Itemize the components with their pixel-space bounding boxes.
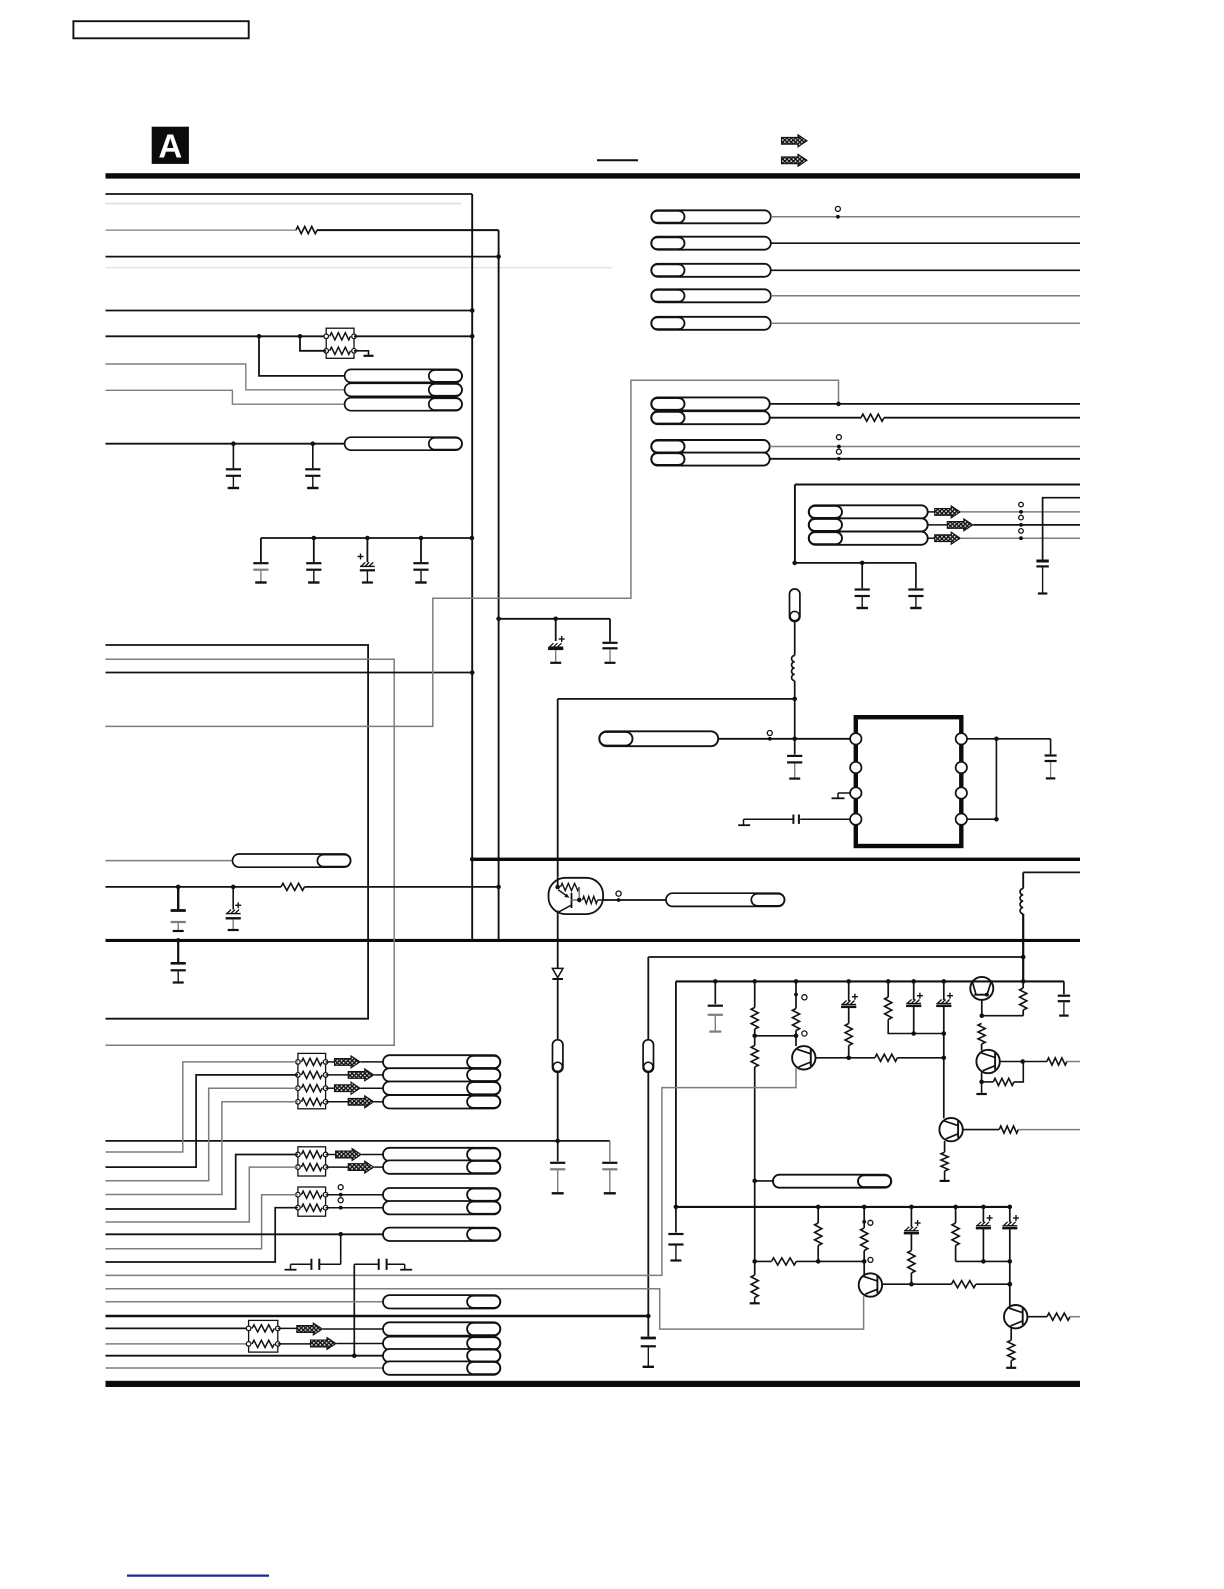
svg-text:A: A — [158, 128, 182, 165]
